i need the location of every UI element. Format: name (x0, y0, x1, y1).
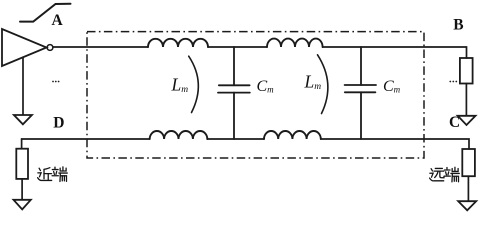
resistor R-near (近端) (16, 149, 28, 179)
dashed coupling region box (87, 32, 424, 158)
capacitor Cm1 (218, 47, 250, 139)
wire: near-end drop (21, 139, 23, 149)
inductor L4 (bottom right) (264, 131, 321, 139)
svg-text:Lm: Lm (171, 74, 189, 95)
resistor RB (node B termination) (460, 58, 473, 84)
ground (below inverter) (14, 115, 32, 124)
ground (node C, below RB) (458, 116, 476, 125)
capacitor Cm2 (345, 47, 376, 139)
inductor L3 (bottom left) (150, 131, 208, 139)
ellipsis dots left of RB (449, 81, 457, 83)
wire: top rail from L2 to node B corner (323, 47, 467, 58)
svg-text:Lm: Lm (304, 71, 322, 92)
svg-text:Cm: Cm (383, 78, 401, 95)
wire: inverter ground lead (22, 57, 24, 115)
driver inverter U1 (2, 29, 47, 66)
svg-text:Cm: Cm (257, 78, 275, 95)
svg-text:B: B (453, 17, 463, 34)
input step signal (20, 4, 71, 22)
wire: top rail between L1 and L2 (208, 46, 267, 48)
wire: bottom rail between L3 and L4 (207, 138, 264, 140)
svg-text:C: C (449, 114, 460, 131)
coupling arc of Lm2 (318, 55, 328, 114)
inverter output bubble (47, 45, 53, 51)
wire: top rail from bubble to Lm1 (53, 46, 148, 48)
wire: R-far to ground (467, 176, 469, 201)
wire: R-near to ground (21, 179, 23, 200)
label 近端 (near end), drawn as strokes (38, 168, 52, 181)
ground (far end) (458, 201, 476, 210)
ellipsis dots under driver output (52, 81, 59, 83)
wire: RB to ground (465, 84, 467, 116)
coupling arc of Lm1 (189, 56, 199, 112)
resistor R-far (远端) (462, 149, 475, 176)
svg-text:D: D (53, 114, 64, 131)
svg-text:A: A (52, 12, 64, 29)
inductor L2 (top right) (267, 39, 323, 47)
label 远端 (far end), drawn as strokes (430, 168, 444, 180)
wire: bottom rail from near-end corner to L3 (22, 138, 150, 140)
wire: bottom rail from L4 to far-end corner (321, 139, 469, 149)
inductor L1 (top left) (148, 39, 208, 47)
ground (near end) (14, 200, 31, 210)
